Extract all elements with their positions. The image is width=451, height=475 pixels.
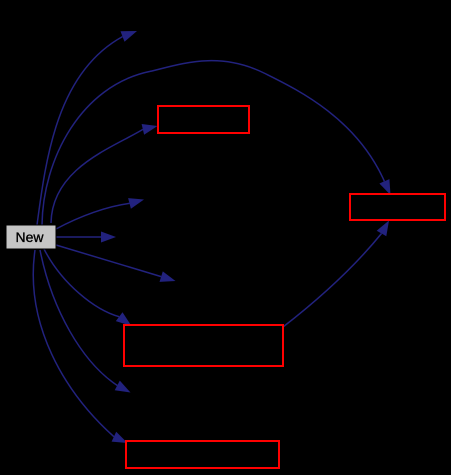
edge New->right box (long arc over top): [42, 61, 384, 225]
edge New->node4 (straight, lower): [56, 245, 161, 277]
arrowhead New->node4: [160, 271, 176, 282]
edge New->middle red box: [44, 249, 119, 317]
arrowhead New->middle red box: [116, 312, 132, 326]
node: middle red box (two-line label): [124, 325, 283, 366]
node: top red box (black label invisible): [158, 106, 249, 133]
arrowhead middle box->right box bottom: [377, 221, 389, 237]
arrowhead New->top red box: [142, 124, 158, 135]
edge New->top red box: [51, 129, 143, 223]
node: bottom red box: [126, 441, 279, 468]
arrowhead New->node2: [128, 198, 144, 209]
svg-text:New: New: [15, 229, 44, 245]
edge New->node3 (straight, horizontal): [56, 236, 101, 238]
arrowhead New->bottom red box: [112, 432, 128, 443]
edge middle box->right box: [283, 234, 382, 328]
arrowhead New->node1: [121, 31, 138, 42]
arrowhead New->node5: [115, 381, 131, 393]
node New (grey filled): [6, 225, 56, 249]
edge New->node5 (lower invisible node): [40, 250, 117, 386]
node: right red box: [350, 194, 445, 220]
edge New->bottom red box: [33, 250, 114, 437]
edge New->node1 (top-left invisible node): [37, 37, 123, 225]
edge New->node2 (straight, upper): [56, 203, 130, 229]
arrowhead New->node3: [101, 232, 116, 243]
arrowhead New->right box top: [379, 179, 390, 195]
